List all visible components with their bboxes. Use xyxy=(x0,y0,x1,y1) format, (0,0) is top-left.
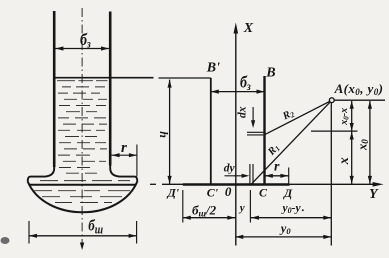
svg-text:C: C xyxy=(259,186,268,200)
svg-text:R1: R1 xyxy=(266,142,282,158)
wall B' C' xyxy=(210,78,212,184)
ray R1 from A to dy element xyxy=(252,101,332,184)
svg-text:R2: R2 xyxy=(280,108,296,124)
svg-text:Y: Y xyxy=(369,187,379,202)
dimension r (right figure, C to Д) xyxy=(265,175,289,177)
svg-text:B: B xyxy=(265,65,275,80)
svg-text:x: x xyxy=(337,157,352,165)
dy element ticks xyxy=(249,164,251,184)
svg-text:dy: dy xyxy=(224,163,236,175)
axis bottom arrowhead xyxy=(80,243,84,251)
svg-text:y: y xyxy=(238,202,245,214)
tube left wall xyxy=(53,11,56,167)
X axis xyxy=(235,32,237,246)
lower dimension row 1: в_ш/2, y, y0-y xyxy=(182,190,184,223)
r extension line xyxy=(136,145,138,177)
dimension x xyxy=(351,132,353,184)
svg-text:бз: бз xyxy=(80,31,91,51)
svg-text:x0: x0 xyxy=(355,139,370,151)
x element level line xyxy=(311,130,358,132)
bowl hatching xyxy=(34,181,130,203)
dimension в_ш (bowl width) xyxy=(28,221,30,244)
A vertical line down xyxy=(330,103,332,246)
dx element ticks on wall BC xyxy=(247,131,263,133)
svg-text:бш/2: бш/2 xyxy=(192,203,217,219)
dy pointer arrow xyxy=(225,175,243,177)
svg-text:0: 0 xyxy=(225,184,232,199)
svg-text:Д: Д xyxy=(283,186,293,200)
dimension x0-x xyxy=(351,101,353,131)
speck after y0-y label xyxy=(302,209,304,211)
svg-text:бш: бш xyxy=(88,217,103,236)
svg-text:h: h xyxy=(157,131,171,138)
scan speck bottom left xyxy=(1,237,10,244)
svg-text:r: r xyxy=(121,140,127,156)
svg-text:A(x0, y0): A(x0, y0) xyxy=(334,81,384,97)
dimension в3 (right figure, B' to B) xyxy=(211,91,265,93)
svg-text:Д': Д' xyxy=(167,186,180,200)
svg-text:dx: dx xyxy=(236,106,248,118)
liquid line across bowl xyxy=(30,184,136,186)
thick bottom wall Д' to Д xyxy=(183,183,290,186)
point A circle xyxy=(329,98,334,103)
svg-text:C': C' xyxy=(207,185,219,199)
tube right wall xyxy=(109,12,112,166)
dimension h xyxy=(169,80,171,184)
svg-text:y0: y0 xyxy=(279,222,292,237)
dimension x0 xyxy=(369,101,371,184)
liquid hatching in tube xyxy=(57,81,108,174)
Д extension line xyxy=(288,168,290,184)
ray R2 from A to dx element xyxy=(265,101,332,135)
svg-text:X: X xyxy=(243,21,254,36)
A level horizontal line xyxy=(334,99,385,101)
svg-text:B': B' xyxy=(206,60,220,75)
bowl (wide flat bulb) outline: left flare, top edges, rounded corners, bottom arc xyxy=(28,166,55,182)
wall B C (thick) xyxy=(263,76,265,184)
Y axis / base line xyxy=(150,183,156,185)
dimension r (left figure) xyxy=(112,154,137,156)
dimension в3 (tube width) xyxy=(56,48,109,50)
svg-text:y0-y: y0-y xyxy=(281,203,302,216)
liquid surface line in tube extending to B' xyxy=(55,77,154,79)
lower dimension row 2: y0 xyxy=(235,236,331,238)
svg-text:r: r xyxy=(274,159,280,174)
svg-text:x0-x: x0-x xyxy=(339,108,351,126)
dx pointer arrow xyxy=(252,107,254,122)
bowl bottom elliptical arc xyxy=(28,182,138,213)
tube axis dash-dot center line xyxy=(81,8,83,244)
svg-text:бз: бз xyxy=(240,73,251,93)
